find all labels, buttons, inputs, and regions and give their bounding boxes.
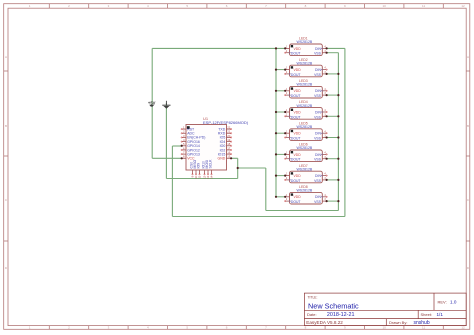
svg-text:10: 10 (383, 4, 387, 8)
U1 pin 11 IO9 (197, 163, 202, 179)
LED1 WS2812B (285, 37, 326, 56)
svg-text:VDD: VDD (294, 195, 302, 199)
svg-text:DOUT: DOUT (291, 73, 301, 77)
svg-text:VDD: VDD (294, 174, 302, 178)
U1 pin 2 ADC (181, 130, 195, 136)
wire data riser to DIN1 (344, 48, 346, 216)
U1 pin 20 IO5 (220, 134, 232, 140)
svg-text:B: B (467, 124, 469, 128)
svg-text:11: 11 (422, 4, 425, 8)
LED5 VDD tap (276, 132, 285, 134)
wire VSS rail (337, 53, 339, 211)
LED8 VSS tap (327, 200, 339, 202)
LED7 VSS tap (327, 179, 339, 181)
svg-text:VSS: VSS (314, 73, 322, 77)
LED6 DOUT unconnected (285, 158, 286, 159)
U1 pin 14 SCLK (209, 159, 214, 179)
LED8 DOUT unconnected (285, 200, 286, 201)
U1 pin 21 RXD (218, 130, 232, 136)
LED5 WS2812B (285, 121, 326, 140)
svg-text:TITLE:: TITLE: (308, 295, 318, 299)
LED2 VDD tap (276, 69, 285, 71)
svg-text:10: 10 (383, 326, 387, 330)
wire data GPIO to bottom (172, 145, 181, 147)
LED1 DOUT unconnected (285, 52, 286, 53)
LED3 DIN unconnected (326, 90, 327, 91)
svg-text:DOUT: DOUT (291, 94, 301, 98)
U1 pin 1 RST (181, 126, 195, 132)
wire +5V top horizontal to LED1 VDD (152, 47, 285, 49)
wire VDD rail (275, 48, 277, 196)
LED6 VSS tap (327, 158, 339, 160)
svg-text:DIN: DIN (315, 110, 321, 114)
svg-text:DOUT: DOUT (291, 137, 301, 141)
LED6 WS2812B (285, 143, 326, 162)
ground symbol (162, 101, 170, 109)
svg-text:A: A (5, 55, 7, 59)
LED2 DIN unconnected (326, 69, 327, 70)
LED6 DIN unconnected (326, 154, 327, 155)
U1 pin 4 GPIO16 (181, 138, 200, 144)
LED7 WS2812B (285, 164, 326, 183)
LED1 VSS tap (327, 52, 339, 54)
svg-text:VSS: VSS (314, 115, 322, 119)
svg-text:14: 14 (210, 175, 214, 179)
U1 pin 17 IO2 (220, 146, 232, 152)
svg-text:VSS: VSS (314, 94, 322, 98)
svg-text:DOUT: DOUT (291, 179, 301, 183)
wire VSS bottom to GND elbow (266, 210, 339, 212)
U1 pin 7 GPIO13 (181, 151, 200, 157)
svg-text:DOUT: DOUT (291, 200, 301, 204)
svg-text:VDD: VDD (294, 153, 302, 157)
LED8 WS2812B (285, 185, 326, 204)
svg-text:B: B (5, 124, 7, 128)
svg-text:EasyEDA V5.8.22: EasyEDA V5.8.22 (306, 320, 343, 325)
U1 pin 19 IO4 (220, 138, 232, 144)
svg-text:Date:: Date: (307, 312, 317, 317)
svg-text:REV:: REV: (438, 300, 447, 305)
svg-text:Sheet:: Sheet: (421, 312, 433, 317)
svg-text:SCLK: SCLK (209, 159, 213, 169)
svg-text:VDD: VDD (294, 132, 302, 136)
LED8 DIN unconnected (326, 196, 327, 197)
svg-text:VSS: VSS (314, 200, 322, 204)
LED6 VDD tap (276, 153, 285, 155)
svg-text:A: A (467, 55, 469, 59)
svg-text:ESP-12F(ESP8266MOD): ESP-12F(ESP8266MOD) (203, 120, 249, 125)
wire +5V vertical (151, 48, 153, 158)
LED3 VDD tap (276, 90, 285, 92)
LED2 WS2812B (285, 58, 326, 77)
U1 pin 10 MISO (193, 159, 198, 178)
svg-text:DIN: DIN (315, 68, 321, 72)
title block (304, 293, 466, 326)
LED7 DOUT unconnected (285, 179, 286, 180)
svg-text:1/1: 1/1 (437, 312, 444, 317)
wire ground symbol branch (166, 178, 237, 180)
svg-text:DIN: DIN (315, 195, 321, 199)
svg-text:+5V: +5V (148, 100, 156, 105)
junction GND T (237, 167, 239, 169)
U1 pin 16 IO15 (218, 151, 232, 157)
LED4 WS2812B (285, 100, 326, 119)
U1 pin 22 TXD (218, 126, 232, 132)
svg-text:DIN: DIN (315, 153, 321, 157)
svg-text:2018-12-21: 2018-12-21 (327, 312, 355, 318)
svg-text:12: 12 (461, 326, 465, 330)
svg-text:VSS: VSS (314, 158, 322, 162)
wire MCU GND pin (231, 157, 238, 159)
op-amp U1 (MCU ESP-12F) (186, 116, 249, 170)
LED1 VDD tap (275, 47, 277, 49)
LED2 DOUT unconnected (285, 73, 286, 74)
svg-text:DOUT: DOUT (291, 52, 301, 56)
svg-text:DOUT: DOUT (291, 115, 301, 119)
svg-text:GND: GND (218, 157, 226, 161)
svg-text:Drawn By:: Drawn By: (389, 320, 407, 325)
svg-text:1.0: 1.0 (450, 300, 457, 305)
svg-text:DOUT: DOUT (291, 158, 301, 162)
U1 pin 8 VCC (181, 155, 195, 161)
svg-text:VSS: VSS (314, 137, 322, 141)
U1 pin 15 GND (218, 155, 233, 161)
svg-text:VSS: VSS (314, 52, 322, 56)
LED7 VDD tap (276, 175, 285, 177)
svg-text:VDD: VDD (294, 89, 302, 93)
LED4 VDD tap (276, 111, 285, 113)
LED8 VDD tap (276, 196, 285, 198)
svg-text:VDD: VDD (294, 68, 302, 72)
svg-text:IO9: IO9 (197, 163, 201, 169)
svg-text:12: 12 (461, 4, 465, 8)
U1 pin 3 EN(CH-PD) (181, 134, 205, 140)
U1 pin 13 MOSI (205, 160, 210, 179)
LED4 VSS tap (327, 115, 339, 117)
svg-text:VSS: VSS (314, 179, 322, 183)
U1 pin 18 IO0 (220, 142, 232, 148)
svg-text:DIN: DIN (315, 47, 321, 51)
svg-text:11: 11 (198, 175, 202, 178)
U1 pin 5 GPIO14 (181, 142, 200, 148)
LED5 DOUT unconnected (285, 137, 286, 138)
LED3 DOUT unconnected (285, 94, 286, 95)
U1 pin 6 GPIO12 (181, 146, 200, 152)
LED5 VSS tap (327, 137, 339, 139)
svg-text:DIN: DIN (315, 174, 321, 178)
svg-text:VDD: VDD (294, 110, 302, 114)
U1 pin 12 IO10 (202, 161, 207, 179)
U1 pin 9 CS0 (190, 162, 195, 178)
LED1 DIN junction (326, 47, 328, 49)
svg-text:snshub: snshub (414, 320, 430, 326)
svg-text:New Schematic: New Schematic (308, 301, 359, 310)
wire data bottom horizontal (172, 216, 345, 218)
LED2 VSS tap (327, 73, 339, 75)
LED5 DIN unconnected (326, 133, 327, 134)
svg-text:DIN: DIN (315, 132, 321, 136)
wire +5V to MCU VCC (152, 157, 182, 159)
LED3 VSS tap (327, 94, 339, 96)
LED4 DIN unconnected (326, 111, 327, 112)
svg-text:VDD: VDD (294, 47, 302, 51)
LED3 WS2812B (285, 79, 326, 98)
LED7 DIN unconnected (326, 175, 327, 176)
LED4 DOUT unconnected (285, 116, 286, 117)
+5V net flag (148, 100, 156, 106)
svg-text:DIN: DIN (315, 89, 321, 93)
